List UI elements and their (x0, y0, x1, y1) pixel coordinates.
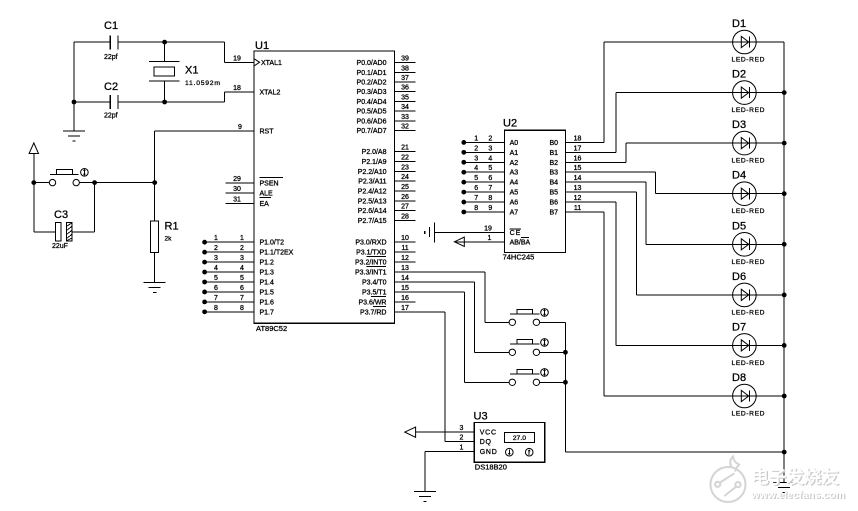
svg-text:P3.0/RXD: P3.0/RXD (355, 240, 386, 247)
svg-text:D1: D1 (732, 18, 746, 30)
wire U2 B3 to LED D4 (655, 172, 784, 193)
wire C3 left leg (34, 183, 56, 232)
LED D8 LED-RED (732, 372, 766, 418)
svg-text:D7: D7 (732, 321, 746, 333)
U1 pin 3 P1.2 wire with junction dot (202, 255, 274, 267)
node junction bus D5 (782, 242, 787, 247)
svg-text:EA: EA (260, 201, 270, 208)
svg-text:35: 35 (401, 94, 409, 101)
svg-text:D6: D6 (732, 271, 746, 283)
svg-text:17: 17 (401, 305, 409, 312)
U1 pin 13 P3.3/INT1 (355, 265, 409, 277)
svg-text:3: 3 (488, 145, 492, 152)
svg-text:19: 19 (233, 55, 241, 62)
U2 pin 1 AB/BA with overline (454, 235, 530, 247)
wire button K1 to common bus (540, 321, 566, 323)
crystal X1 (149, 62, 221, 87)
reset button actuate marker (81, 169, 89, 177)
push button K3 (509, 370, 540, 386)
svg-text:31: 31 (233, 196, 241, 203)
U2 pin A0 input wire with junction dot (461, 135, 518, 147)
svg-text:C3: C3 (54, 209, 68, 221)
wire U1 P3.4 to button K2 (395, 282, 510, 352)
U1 pin 15 P3.5/T1 (362, 285, 409, 297)
svg-text:U1: U1 (255, 40, 269, 52)
node junction button-C3 (92, 180, 97, 185)
svg-text:电子发烧友: 电子发烧友 (751, 467, 839, 487)
svg-text:U2: U2 (503, 118, 517, 130)
svg-text:16: 16 (401, 295, 409, 302)
LED D2 LED-RED (732, 69, 766, 115)
capacitor C3 (52, 209, 72, 250)
svg-text:15: 15 (401, 285, 409, 292)
U1 pin 31 EA (226, 196, 271, 208)
svg-text:12: 12 (574, 195, 582, 202)
svg-text:1: 1 (474, 135, 478, 142)
svg-text:A7: A7 (510, 209, 519, 216)
U1 pin 35 P0.4/AD4 (357, 94, 416, 106)
svg-text:VCC: VCC (480, 430, 497, 437)
LED D5 LED-RED (732, 220, 766, 265)
ground below R1 (144, 281, 166, 283)
svg-text:B0: B0 (549, 140, 558, 147)
svg-text:P1.7: P1.7 (260, 309, 275, 316)
svg-text:6: 6 (214, 285, 218, 292)
svg-text:7: 7 (488, 185, 492, 192)
U1 pin 19 XTAL1 (224, 55, 282, 67)
buffer U2 box 74HC245 (505, 130, 566, 252)
wire U2 B2 to LED D3 (626, 143, 784, 162)
svg-text:22uF: 22uF (52, 243, 68, 250)
svg-text:2k: 2k (165, 236, 173, 243)
U3 pin 1 GND (425, 445, 498, 492)
svg-text:19: 19 (484, 226, 492, 233)
svg-text:P3.2/INT0: P3.2/INT0 (355, 260, 387, 267)
U2 pin A5 input wire with junction dot (461, 185, 518, 197)
U2 pin B4 output stub (549, 175, 646, 187)
wire R1 to ground (154, 253, 156, 283)
svg-text:37: 37 (401, 75, 409, 82)
U2 pin B6 output stub (549, 195, 615, 207)
svg-text:P3.1/TXD: P3.1/TXD (356, 250, 386, 257)
svg-text:7: 7 (214, 295, 218, 302)
svg-text:P2.5/A13: P2.5/A13 (358, 198, 387, 205)
U1 pin 17 P3.7/RD (360, 305, 409, 317)
push button K2 (509, 340, 540, 356)
wire button common bus vertical (564, 322, 566, 452)
U1 pin 22 P2.1/A9 (362, 154, 416, 166)
svg-text:P3.4/T0: P3.4/T0 (362, 280, 387, 287)
wire left vertical C1-C2-ground (73, 42, 75, 131)
U2 pin B7 output stub (549, 205, 603, 217)
watermark logo leaf (711, 457, 746, 503)
svg-text:D3: D3 (732, 119, 746, 131)
svg-text:DQ: DQ (480, 439, 492, 446)
node junction RST-R1 (152, 180, 157, 185)
svg-text:A2: A2 (510, 160, 519, 167)
svg-text:B7: B7 (549, 209, 558, 216)
U1 pin 10 P3.0/RXD (355, 235, 415, 247)
button K3 actuate marker (541, 369, 549, 377)
svg-text:2: 2 (474, 145, 478, 152)
U2 pin B1 output stub (549, 145, 615, 157)
wire LED cathode bus vertical (783, 42, 785, 482)
svg-text:A3: A3 (510, 170, 519, 177)
push button K1 (509, 310, 540, 326)
svg-text:6: 6 (488, 175, 492, 182)
U1 pin 33 P0.6/AD6 (357, 114, 416, 126)
svg-text:PSEN: PSEN (260, 181, 279, 188)
wire RST vertical to R1 (154, 131, 156, 221)
power VCC arrow (29, 143, 38, 183)
U2 pin A7 input wire with junction dot (461, 205, 518, 217)
svg-text:R1: R1 (165, 220, 179, 232)
svg-text:1: 1 (488, 235, 492, 242)
U2 pin B3 output stub (549, 165, 655, 177)
svg-text:B6: B6 (549, 200, 558, 207)
svg-text:30: 30 (233, 186, 241, 193)
svg-text:P0.4/AD4: P0.4/AD4 (357, 99, 387, 106)
svg-text:8: 8 (474, 205, 478, 212)
svg-text:4: 4 (214, 265, 218, 272)
svg-text:27: 27 (401, 204, 409, 211)
svg-text:A6: A6 (510, 200, 519, 207)
svg-text:4: 4 (474, 165, 478, 172)
svg-text:B3: B3 (549, 170, 558, 177)
svg-text:6: 6 (474, 185, 478, 192)
svg-text:P1.4: P1.4 (260, 280, 275, 287)
svg-text:LED-RED: LED-RED (732, 208, 766, 215)
svg-text:P3.5/T1: P3.5/T1 (362, 289, 387, 296)
U3 up adjust button (525, 448, 533, 456)
U1 pin 34 P0.5/AD5 (357, 104, 416, 116)
node junction bus D8 (782, 394, 787, 399)
svg-text:GND: GND (480, 449, 498, 456)
ground below U3 (414, 491, 436, 493)
U3 temperature display 27.0 (504, 433, 534, 443)
capacitor C1 (104, 20, 118, 61)
svg-text:27.0: 27.0 (513, 435, 526, 442)
sensor U3 box DS18B20 (474, 422, 545, 462)
node junction bus K3 (563, 380, 568, 385)
wire U2 B6 to LED D7 (616, 202, 784, 345)
svg-text:C2: C2 (104, 81, 118, 93)
wire U1 P3.3 to button K1 (395, 272, 510, 322)
svg-text:25: 25 (401, 184, 409, 191)
svg-text:16: 16 (574, 155, 582, 162)
wire U2 B4 to LED D5 (646, 182, 784, 244)
U1 pin 21 P2.0/A8 (362, 145, 416, 157)
svg-text:P1.1/T2EX: P1.1/T2EX (260, 250, 294, 257)
svg-text:28: 28 (401, 213, 409, 220)
svg-text:5: 5 (214, 275, 218, 282)
svg-text:7: 7 (474, 195, 478, 202)
svg-text:DS18B20: DS18B20 (475, 462, 507, 471)
svg-text:P0.6/AD6: P0.6/AD6 (357, 118, 387, 125)
svg-text:14: 14 (574, 175, 582, 182)
svg-text:23: 23 (401, 164, 409, 171)
U1 pin 11 P3.1/TXD (356, 245, 415, 257)
button K1 actuate marker (541, 309, 549, 317)
svg-text:P3.7/RD: P3.7/RD (360, 309, 386, 316)
node junction bus buttons (782, 450, 787, 455)
U1 pin 25 P2.4/A12 (358, 184, 416, 196)
svg-text:D5: D5 (732, 220, 746, 232)
svg-text:LED-RED: LED-RED (732, 158, 766, 165)
svg-text:www.elecfans.com: www.elecfans.com (750, 489, 845, 501)
svg-text:P2.0/A8: P2.0/A8 (362, 149, 387, 156)
U1 pin 36 P0.3/AD3 (357, 85, 416, 97)
svg-text:P1.3: P1.3 (260, 270, 275, 277)
node junction bus D4 (782, 191, 787, 196)
svg-text:P0.2/AD2: P0.2/AD2 (357, 80, 387, 87)
wire U2 B5 to LED D6 (637, 192, 785, 295)
U3 pin 2 DQ wire from U1 P3.7 (395, 312, 492, 446)
wire U2 B1 to LED D2 (616, 93, 784, 153)
svg-text:C1: C1 (104, 20, 118, 32)
U1 pin 7 P1.6 wire with junction dot (202, 295, 274, 307)
svg-text:15: 15 (574, 165, 582, 172)
svg-text:17: 17 (574, 145, 582, 152)
svg-text:P2.1/A9: P2.1/A9 (362, 159, 387, 166)
U1 pin 9 RST (155, 124, 275, 136)
watermark text 电子发烧友 (751, 467, 840, 488)
svg-text:4: 4 (240, 265, 244, 272)
svg-text:11: 11 (401, 245, 408, 252)
svg-text:1: 1 (214, 235, 218, 242)
resistor R1 (151, 220, 179, 252)
svg-text:AB/BA: AB/BA (510, 239, 531, 246)
watermark text www.elecfans.com (750, 489, 846, 502)
U1 pin 2 P1.1/T2EX wire with junction dot (202, 245, 293, 257)
U1 pin 37 P0.2/AD2 (357, 75, 416, 87)
svg-text:AT89C52: AT89C52 (256, 324, 287, 333)
U1 pin 27 P2.6/A14 (358, 204, 416, 216)
svg-text:1: 1 (240, 235, 244, 242)
svg-text:ALE: ALE (260, 191, 274, 198)
svg-text:13: 13 (574, 185, 582, 192)
wire button K3 to common bus (540, 381, 566, 383)
svg-text:XTAL2: XTAL2 (260, 90, 281, 97)
button K2 actuate marker (541, 339, 549, 347)
U1 pin 38 P0.1/AD1 (357, 65, 416, 77)
U1 pin 18 XTAL2 (224, 85, 280, 97)
svg-text:P2.4/A12: P2.4/A12 (358, 188, 387, 195)
U1 pin 30 ALE (226, 186, 274, 198)
U2 pin A1 input wire with junction dot (461, 145, 518, 157)
svg-text:24: 24 (401, 174, 409, 181)
LED D4 LED-RED (732, 170, 766, 216)
node junction bus D2 (782, 90, 787, 95)
svg-text:A1: A1 (510, 150, 519, 157)
svg-text:B2: B2 (549, 160, 558, 167)
wire button to RST node (79, 182, 154, 184)
ground below LED bus (773, 481, 795, 483)
wire U2 B0 to LED D1 (604, 42, 784, 142)
svg-text:P2.2/A10: P2.2/A10 (358, 169, 387, 176)
svg-text:P0.5/AD5: P0.5/AD5 (357, 109, 387, 116)
svg-text:33: 33 (401, 114, 409, 121)
U2 pin A2 input wire with junction dot (461, 155, 518, 167)
svg-text:21: 21 (401, 145, 409, 152)
svg-text:10: 10 (401, 235, 409, 242)
svg-text:12: 12 (401, 255, 409, 262)
U2 pin 19 CE with overline (435, 226, 522, 238)
svg-text:P2.3/A11: P2.3/A11 (358, 179, 386, 186)
node junction bus K2 (563, 350, 568, 355)
svg-text:8: 8 (240, 305, 244, 312)
svg-text:6: 6 (240, 285, 244, 292)
svg-text:P1.2: P1.2 (260, 260, 275, 267)
svg-text:A4: A4 (510, 180, 519, 187)
svg-text:5: 5 (488, 165, 492, 172)
LED D6 LED-RED (732, 271, 766, 317)
svg-text:P3.6/WR: P3.6/WR (358, 299, 386, 306)
svg-text:XTAL1: XTAL1 (261, 60, 282, 67)
svg-text:LED-RED: LED-RED (732, 57, 766, 64)
svg-text:32: 32 (401, 124, 409, 131)
U1 pin 4 P1.3 wire with junction dot (202, 265, 274, 277)
U1 pin 6 P1.5 wire with junction dot (202, 285, 274, 297)
svg-text:9: 9 (488, 205, 492, 212)
svg-text:2: 2 (240, 245, 244, 252)
U2 pin B2 output stub (549, 155, 625, 167)
LED D3 LED-RED (732, 119, 766, 165)
svg-text:2: 2 (488, 135, 492, 142)
svg-text:A5: A5 (510, 190, 519, 197)
U1 pin 26 P2.5/A13 (358, 194, 416, 206)
svg-text:LED-RED: LED-RED (732, 107, 766, 114)
U1 pin 24 P2.3/A11 (358, 174, 415, 186)
power arrow at U3 VCC (405, 427, 416, 437)
U1 pin 28 P2.7/A15 (358, 213, 416, 225)
wire C1 top rail (74, 42, 224, 62)
svg-text:CE: CE (510, 230, 522, 237)
svg-text:14: 14 (401, 275, 409, 282)
svg-text:RST: RST (260, 129, 275, 136)
svg-text:74HC245: 74HC245 (503, 253, 535, 262)
svg-text:1: 1 (460, 445, 464, 452)
svg-text:36: 36 (401, 85, 409, 92)
svg-text:D2: D2 (732, 69, 746, 81)
U1 pin 39 P0.0/AD0 (357, 56, 416, 68)
wire button bus to LED ground bus (565, 451, 784, 453)
svg-text:18: 18 (233, 85, 241, 92)
svg-text:11.0592m: 11.0592m (185, 80, 221, 87)
U1 pin 1 P1.0/T2 wire with junction dot (202, 235, 284, 247)
svg-text:2: 2 (214, 245, 218, 252)
svg-text:2: 2 (460, 434, 464, 441)
svg-text:P0.7/AD7: P0.7/AD7 (357, 128, 387, 135)
svg-text:9: 9 (238, 124, 242, 131)
wire U2 B7 to LED D8 (604, 212, 784, 396)
svg-text:A0: A0 (510, 140, 519, 147)
svg-text:5: 5 (474, 175, 478, 182)
svg-text:3: 3 (214, 255, 218, 262)
svg-text:LED-RED: LED-RED (732, 360, 766, 367)
svg-text:B4: B4 (549, 180, 558, 187)
svg-text:39: 39 (401, 56, 409, 63)
U1 pin 12 P3.2/INT0 (355, 255, 416, 267)
U1 pin 14 P3.4/T0 (362, 275, 409, 287)
svg-text:B5: B5 (549, 190, 558, 197)
U2 pin B0 output stub (549, 135, 603, 147)
U2 pin B5 output stub (549, 185, 636, 197)
node junction bus D3 (782, 141, 787, 146)
svg-text:P1.5: P1.5 (260, 289, 275, 296)
svg-text:22: 22 (401, 154, 409, 161)
U2 pin A4 input wire with junction dot (461, 175, 518, 187)
U1 pin 16 P3.6/WR (358, 295, 415, 307)
svg-text:D4: D4 (732, 170, 746, 182)
svg-text:U3: U3 (474, 411, 488, 423)
svg-text:29: 29 (233, 176, 241, 183)
svg-text:P2.7/A15: P2.7/A15 (358, 218, 387, 225)
wire C3 right leg (72, 183, 95, 232)
LED D7 LED-RED (732, 321, 766, 367)
svg-text:26: 26 (401, 194, 409, 201)
push button reset (49, 169, 79, 186)
svg-text:11: 11 (574, 205, 581, 212)
svg-text:P2.6/A14: P2.6/A14 (358, 208, 387, 215)
wire X1 to rails (164, 42, 166, 102)
svg-text:P0.1/AD1: P0.1/AD1 (357, 70, 387, 77)
svg-text:LED-RED: LED-RED (732, 309, 766, 316)
svg-text:B1: B1 (549, 150, 558, 157)
ground sideways at CE (425, 223, 435, 243)
LED D1 LED-RED (732, 18, 766, 64)
node junction bus D7 (782, 343, 787, 348)
node junction C2 left (72, 100, 77, 105)
IC U1 AT89C52 body (254, 51, 395, 323)
U3 pin 3 VCC (416, 425, 497, 437)
svg-text:X1: X1 (185, 64, 198, 76)
svg-text:13: 13 (401, 265, 409, 272)
svg-text:P0.0/AD0: P0.0/AD0 (357, 60, 387, 67)
svg-text:8: 8 (214, 305, 218, 312)
svg-text:P3.3/INT1: P3.3/INT1 (355, 270, 387, 277)
svg-text:3: 3 (474, 155, 478, 162)
node junction X1 bottom (162, 100, 167, 105)
svg-text:LED-RED: LED-RED (732, 259, 766, 266)
ground below C1 C2 (63, 130, 85, 132)
wire U1 P3.5 to button K3 (395, 292, 510, 382)
svg-text:4: 4 (488, 155, 492, 162)
svg-text:P1.0/T2: P1.0/T2 (260, 240, 285, 247)
U1 pin 32 P0.7/AD7 (357, 124, 416, 136)
svg-text:34: 34 (401, 104, 409, 111)
power arrow at AB/BA (454, 237, 464, 246)
U1 pin 29 PSEN (226, 176, 283, 188)
wire button K2 to common bus (540, 351, 566, 353)
U3 down adjust button (506, 448, 514, 456)
svg-text:P0.3/AD3: P0.3/AD3 (357, 89, 387, 96)
svg-text:22pf: 22pf (104, 54, 118, 61)
U2 pin A6 input wire with junction dot (461, 195, 518, 207)
svg-text:18: 18 (574, 135, 582, 142)
svg-text:D8: D8 (732, 372, 746, 384)
svg-text:3: 3 (240, 255, 244, 262)
U1 pin 23 P2.2/A10 (358, 164, 416, 176)
node junction bus D6 (782, 293, 787, 298)
U1 pin 5 P1.4 wire with junction dot (202, 275, 274, 287)
node junction X1 top (162, 40, 167, 45)
node junction VCC-button (31, 180, 36, 185)
wire C2 bottom rail (74, 92, 224, 102)
wire VCC to button (34, 182, 50, 184)
svg-text:8: 8 (488, 195, 492, 202)
capacitor C2 (104, 81, 118, 120)
